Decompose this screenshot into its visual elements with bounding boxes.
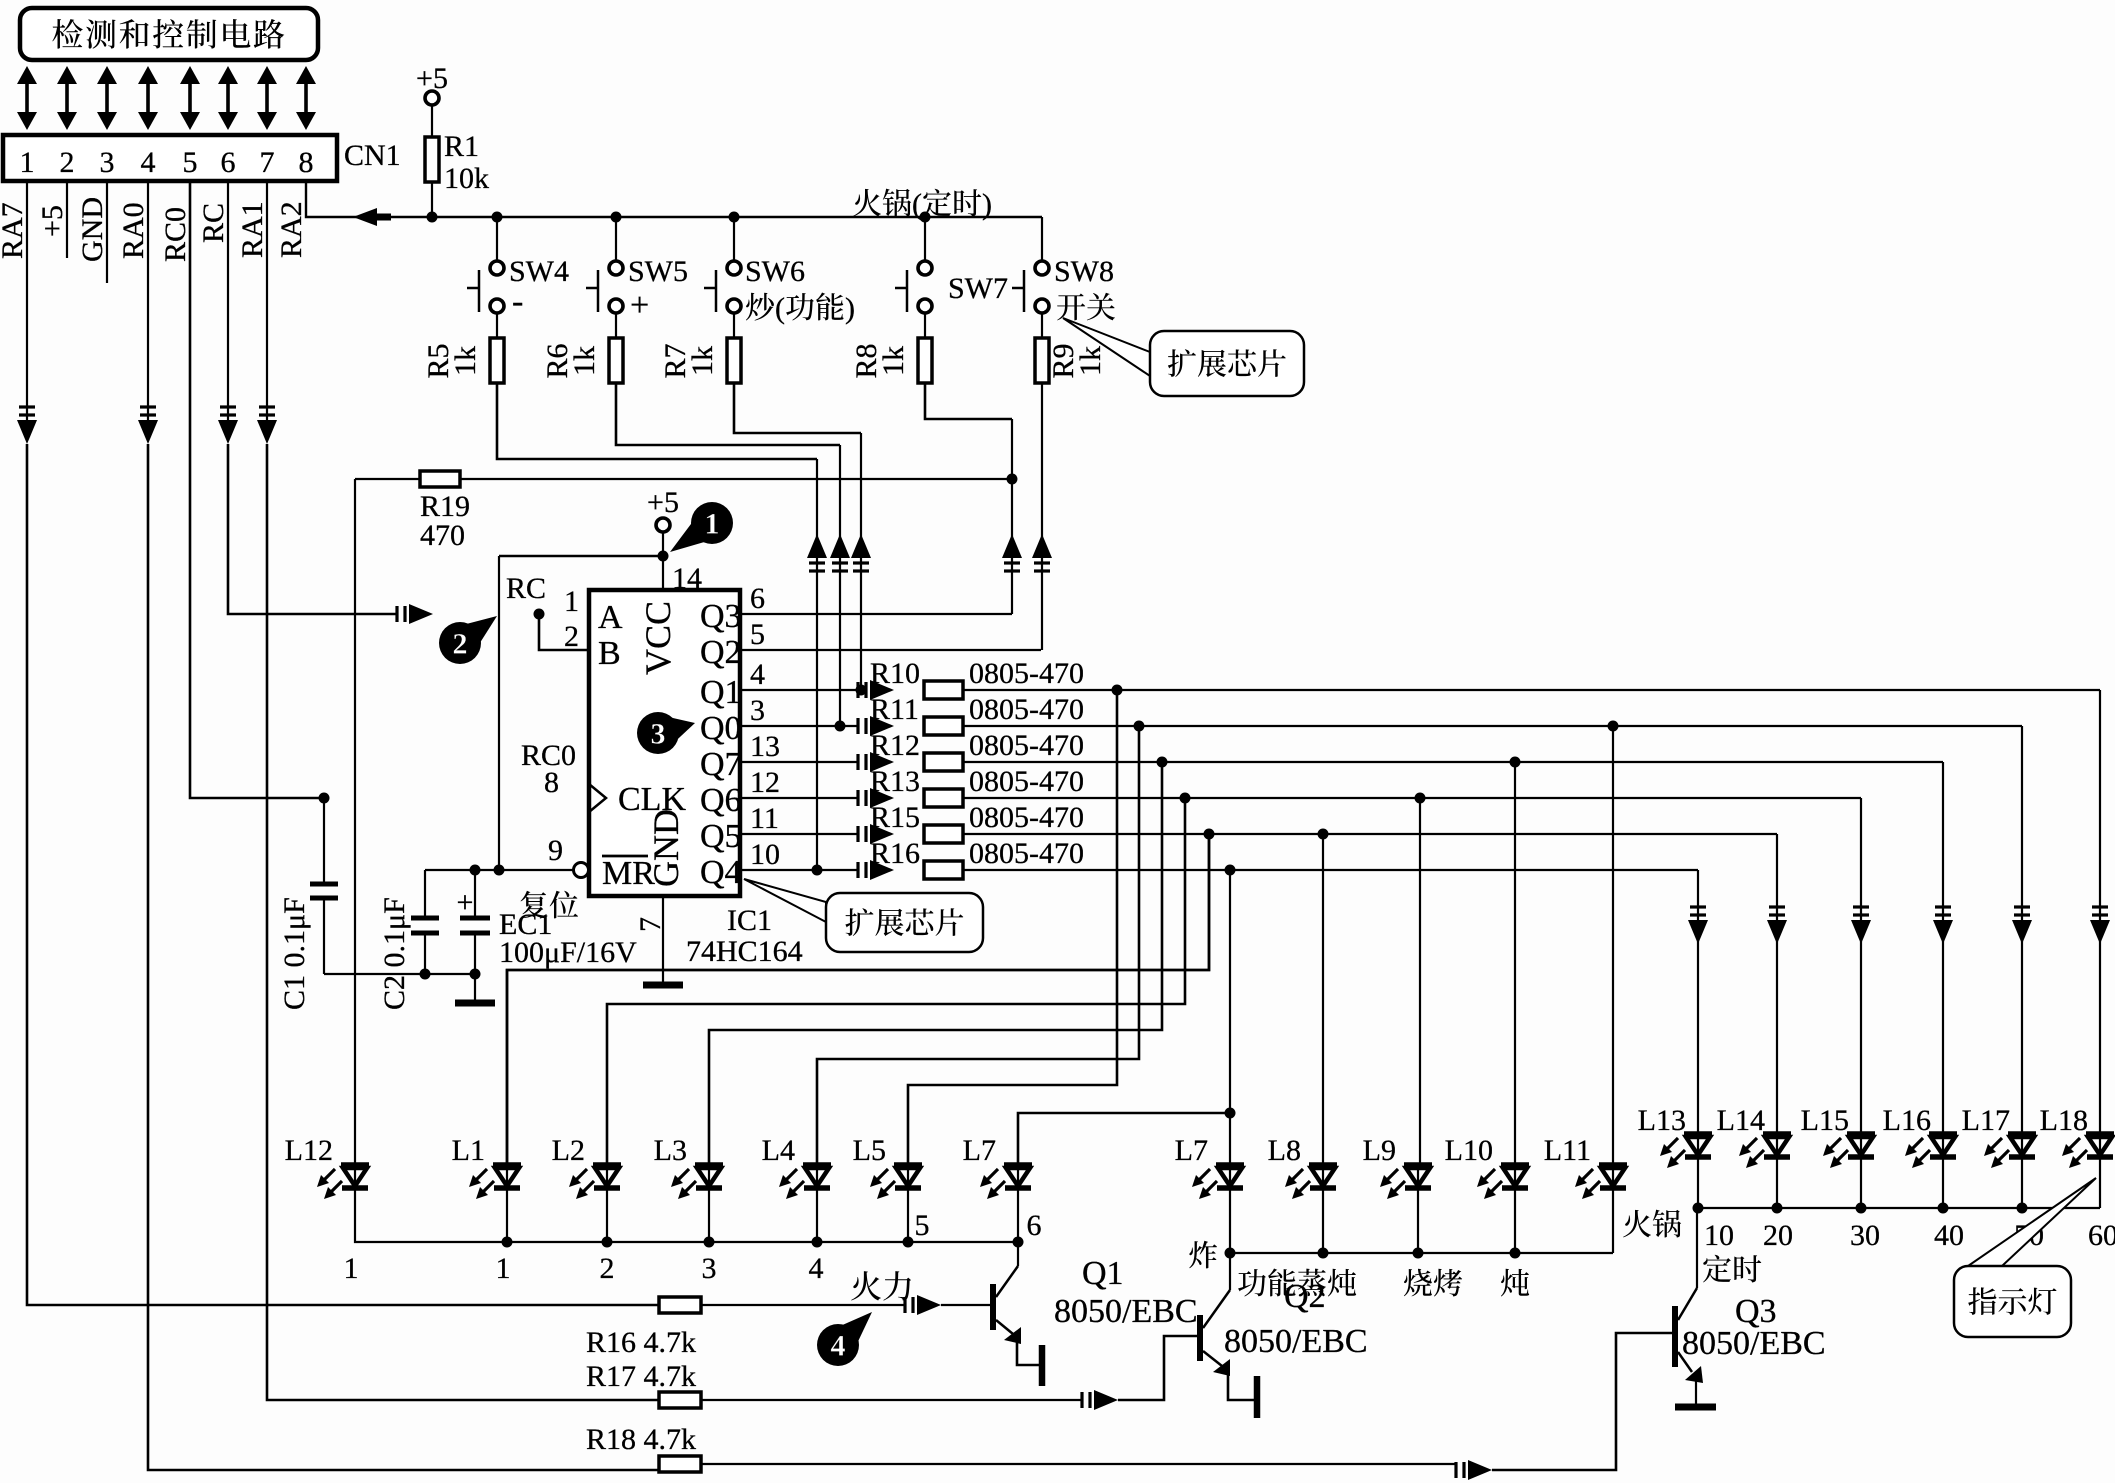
svg-text:CLK: CLK [618,781,686,818]
wire R15 output line [963,833,1777,835]
LED L18 [2086,1131,2114,1137]
svg-text:6: 6 [1027,1209,1042,1242]
svg-text:IC1: IC1 [727,904,772,937]
arrow into CN1 (left) [353,208,377,226]
junction R10 drop [1112,685,1123,696]
svg-text:Q0: Q0 [700,710,742,747]
junction bus3 x=1943 [1938,1203,1949,1214]
label 定时 [1703,1255,1731,1283]
junction EC1/rail [470,969,481,980]
resistor R1 10k [431,105,433,138]
svg-text:R15: R15 [870,801,920,834]
wire CN1 pin8 RA2 to key bus [306,181,1042,217]
junction R12 drop [1157,757,1168,768]
junction R15/L8 tap [1318,829,1329,840]
svg-text:40: 40 [1934,1219,1964,1252]
junction A-B tie [534,609,545,620]
svg-text:R11: R11 [870,693,919,726]
svg-text:(: ( [775,292,785,325]
arrow to Q1 base [903,1297,906,1313]
wire R7 to scan line [734,383,861,433]
wire LED cathode x=1698 (top row) [1697,1157,1699,1208]
resistor R15 0805-470 [924,825,963,843]
svg-text:3: 3 [750,694,765,727]
svg-text:0805-470: 0805-470 [969,657,1084,690]
junction R11/L11 tap [1608,721,1619,732]
label 开关 [1057,293,1085,320]
arrow up scan a [807,534,827,558]
junction bus/SW5 [611,212,622,223]
junction bus/SW7 [920,212,931,223]
junction bus2 x=1418 [1413,1248,1424,1259]
svg-text:1k: 1k [877,346,910,376]
wire LED cathode x=607 [606,1188,608,1242]
wire drop x=1162 to LED column x=709 [709,762,1162,1165]
label 复位 (reset) [521,891,548,919]
power terminal +5 (IC) [656,518,670,532]
svg-text:): ) [982,188,992,221]
svg-text:C1 0.1μF: C1 0.1μF [278,897,311,1010]
svg-text:): ) [845,292,855,325]
wire RA0 to R18 row [148,444,659,1470]
junction scan a / R16 line [812,865,823,876]
svg-text:8050/EBC: 8050/EBC [1054,1293,1198,1330]
arrow into R11 [856,718,859,734]
junction bus1 end / Q1 collector [1013,1237,1024,1248]
junction MR/+5 [494,865,505,876]
svg-text:4: 4 [809,1252,824,1285]
junction SW7 column / R19 line [1007,474,1018,485]
junction R16 drop [1225,865,1236,876]
junction bus3 x=1861 [1856,1203,1867,1214]
resistor R6 1k [609,338,623,383]
svg-text:2: 2 [453,628,468,661]
arrow into R16 [856,862,859,878]
LED L2 [593,1162,621,1168]
junction bus1 x=908 [903,1237,914,1248]
arrow up scan c [851,534,871,558]
switch SW4 [496,217,498,262]
svg-text:R17 4.7k: R17 4.7k [586,1360,696,1393]
wire IC output to R11 [740,725,858,727]
wire L7a cathode [1017,1188,1019,1242]
svg-text:Q2: Q2 [700,634,742,671]
wire CN1 pin4 RA0 stub [147,181,149,420]
LED L12 [341,1162,369,1168]
wire SW7 column to IC pin6 [1011,419,1013,614]
bidirectional arrow CN1 pin 3 [105,79,109,117]
svg-text:1k: 1k [1074,346,1107,376]
svg-text:RA0: RA0 [117,202,150,259]
wire LED cathode x=507 [506,1188,508,1242]
resistor R12 0805-470 [924,753,963,771]
LED L9 [1404,1162,1432,1168]
svg-text:74HC164: 74HC164 [686,935,803,968]
arrow into R13 [856,790,859,806]
svg-text:L2: L2 [552,1134,585,1167]
svg-text:0805-470: 0805-470 [969,729,1084,762]
resistor R8 1k [918,338,932,383]
svg-text:L18: L18 [2040,1104,2088,1137]
label 烧烤 [1404,1269,1432,1297]
bidirectional arrow CN1 pin 6 [226,79,230,117]
wire branch to L7a [1018,1113,1230,1165]
label 火锅 [1623,1210,1651,1238]
arrow into R15 [856,826,859,842]
bidirectional arrow CN1 pin 8 [304,79,308,117]
junction bus3 x=1698 [1693,1203,1704,1214]
bidirectional arrow CN1 pin 2 [65,79,69,117]
ground (Q2 emitter) [1254,1376,1261,1418]
junction R15 drop [1204,829,1215,840]
svg-text:1k: 1k [449,346,482,376]
junction bus3 x=1777 [1772,1203,1783,1214]
wire R9 down [1041,383,1043,650]
ground (EC1) [455,1000,495,1007]
bidirectional arrow CN1 pin 4 [146,79,150,117]
transistor Q2 8050/EBC [1197,1315,1203,1361]
svg-text:3: 3 [702,1252,717,1285]
wire R8 to Q3 column [925,383,1012,419]
svg-text:1: 1 [564,585,579,618]
arrow down x=1698 [1688,920,1708,944]
callout 扩展芯片 (IC) [744,879,826,922]
arrow into R10 [856,682,859,698]
bus 1 (heat-level LEDs common) [355,1188,1018,1242]
LED L7 [1216,1162,1244,1168]
callout 指示灯 [1968,1178,2096,1266]
switch SW6 [733,217,735,262]
svg-text:1k: 1k [686,346,719,376]
wire R6 to scan line [616,383,840,445]
wire drop x=1139 to LED column x=817 [817,726,1139,1165]
svg-text:-: - [512,283,523,320]
balloon 4 [817,1324,859,1366]
wire LED cathode x=2100 (top row) [2099,1157,2101,1208]
callout 扩展芯片 (keys) [1063,318,1150,376]
resistor R7 1k [727,338,741,383]
wire LED cathode x=908 [907,1188,909,1242]
svg-text:Q7: Q7 [700,746,742,783]
wire LED cathode x=1777 (top row) [1776,1157,1778,1208]
wire CN1 pin2 +5 stub [66,181,68,258]
LED L14 [1763,1131,1791,1137]
svg-text:L16: L16 [1883,1104,1931,1137]
wire A-B tie [539,614,589,650]
svg-text:3: 3 [100,146,115,179]
svg-text:+5: +5 [36,205,69,237]
arrow RA0 down [138,420,158,444]
wire MR rail [425,869,574,871]
wire LED cathode x=2022 (top row) [2021,1157,2023,1208]
arrow RA1 down [257,420,277,444]
label 火力 [851,1271,881,1300]
junction bus3 x=2022 [2017,1203,2028,1214]
LED L7 [1004,1162,1032,1168]
svg-text:L12: L12 [285,1134,333,1167]
LED L13 [1684,1131,1712,1137]
junction bus1 x=709 [704,1237,715,1248]
wire R10 output line [963,689,2100,691]
wire CN1 pin1 RA7 stub [26,181,28,420]
LED L17 [2008,1131,2036,1137]
wire corner x=2100 down to LED row [2099,690,2101,1134]
junction bus2 x=1515 [1510,1248,1521,1259]
svg-text:L8: L8 [1268,1134,1301,1167]
junction bus1 x=507 [502,1237,513,1248]
svg-text:Q1: Q1 [1082,1255,1124,1292]
arrow to Q3 base [1454,1462,1457,1478]
svg-text:3: 3 [651,718,666,751]
wire IC pin6 to SW7 column [740,613,1012,615]
wire L1 feed line [507,834,1209,1165]
bus 2 (function LEDs common) [1230,1188,1613,1253]
LED L3 [695,1162,723,1168]
resistor R13 0805-470 [924,789,963,807]
svg-text:4: 4 [141,146,156,179]
MR inverting bubble [574,863,589,878]
svg-text:4: 4 [750,658,765,691]
ground (Q3 emitter) [1675,1404,1716,1411]
svg-text:RA2: RA2 [275,201,308,258]
svg-text:12: 12 [750,766,780,799]
resistor R9 1k [1035,338,1049,383]
wire IC output to R12 [740,761,858,763]
svg-text:SW7: SW7 [948,272,1008,305]
svg-text:10: 10 [750,838,780,871]
capacitor EC1 100uF/16V (electrolytic) [474,870,476,918]
wire R11 output line [963,725,2022,727]
svg-text:+: + [630,287,649,324]
wire to Q1 base [941,1304,990,1306]
svg-text:Q6: Q6 [700,782,742,819]
wire CN1 pin6 RC stub [227,181,229,420]
wire LED cathode x=1943 (top row) [1942,1157,1944,1208]
label 炒(功能) [746,293,774,321]
junction R11 drop [1134,721,1145,732]
svg-text:RA7: RA7 [0,202,29,259]
svg-text:20: 20 [1763,1219,1793,1252]
power terminal +5 (top) [425,91,439,105]
svg-text:RA1: RA1 [236,201,269,258]
wire R12 output line [963,761,1943,763]
svg-text:RC: RC [506,572,546,605]
svg-text:8050/EBC: 8050/EBC [1224,1323,1368,1360]
arrow into R12 [856,754,859,770]
ground (IC pin 7) [643,982,683,989]
junction R1/bus [427,212,438,223]
junction bus/SW6 [729,212,740,223]
wire LED cathode x=1515 [1514,1188,1516,1253]
arrow RA7 down [17,420,37,444]
svg-text:VCC: VCC [638,601,678,675]
junction bus2 x=1323 [1318,1248,1329,1259]
svg-text:1: 1 [20,146,35,179]
resistor R16 4.7k (Q1 base) [659,1297,701,1313]
wire drop x=1185 to LED column x=607 [607,798,1185,1165]
resistor R10 0805-470 [924,681,963,699]
arrow down x=1943 [1933,920,1953,944]
junction R12/L10 tap [1510,757,1521,768]
wire scan column c (SW6 to R10 input) [860,433,862,690]
capacitor ground rail [324,973,475,975]
clock wedge [589,784,606,812]
svg-text:R16: R16 [870,837,920,870]
wire IC pin5 to SW8 column [740,649,1041,651]
connector CN1 [3,135,337,181]
svg-text:L17: L17 [1962,1104,2010,1137]
wire +5 to MR rail [499,555,663,558]
svg-text:100μF/16V: 100μF/16V [499,936,637,969]
svg-text:L10: L10 [1445,1134,1493,1167]
svg-text:0805-470: 0805-470 [969,765,1084,798]
resistor R16 0805-470 [924,861,963,879]
balloon 3 [637,712,679,754]
wire corner x=1861 down to LED row [1860,798,1862,1134]
svg-text:R1: R1 [444,130,479,163]
svg-text:2: 2 [60,146,75,179]
svg-text:0805-470: 0805-470 [969,801,1084,834]
switch SW7 [924,217,926,262]
wire tap to L11 [1612,726,1614,1165]
svg-text:CN1: CN1 [344,139,401,172]
wire corner x=1777 down to LED row [1776,834,1778,1134]
svg-text:L5: L5 [853,1134,886,1167]
svg-text:13: 13 [750,730,780,763]
svg-text:8: 8 [544,766,559,799]
svg-text:GND: GND [76,197,109,262]
arrow RC down [218,420,238,444]
arrow down x=1861 [1851,920,1871,944]
wire corner x=1698 down to LED row [1697,870,1699,1134]
transistor Q3 8050/EBC [1672,1306,1678,1367]
wire RA7 to R16 row [27,444,659,1305]
svg-text:SW8: SW8 [1054,255,1114,288]
wire IC output to R15 [740,833,858,835]
svg-text:8050/EBC: 8050/EBC [1682,1325,1826,1362]
block: detection & control circuit box (检测和控制电路) [20,8,318,60]
svg-text:1k: 1k [568,346,601,376]
svg-text:L15: L15 [1801,1104,1849,1137]
resistor R17 4.7k (Q2 base) [659,1392,701,1408]
label 功能 [1238,1269,1266,1297]
svg-text:L14: L14 [1717,1104,1765,1137]
arrow up SW8 column [1032,534,1052,558]
svg-text:7: 7 [260,146,275,179]
wire drop x=1209 to LED column x=507 [507,834,1209,1165]
svg-text:SW5: SW5 [628,255,688,288]
wire CN1 pin7 RA1 stub [266,181,268,420]
LED L15 [1847,1131,1875,1137]
svg-text:60: 60 [2088,1219,2115,1252]
wire IC output to R16 [740,869,858,871]
svg-text:RC: RC [197,203,230,243]
svg-text:8: 8 [299,146,314,179]
wire LED cathode x=709 [708,1188,710,1242]
resistor R19 470 [355,478,1012,480]
label 炸 [1189,1241,1217,1269]
wire LED cathode x=1418 [1417,1188,1419,1253]
svg-text:1: 1 [496,1252,511,1285]
arrow up SW7 column [1002,534,1022,558]
svg-text:5: 5 [750,618,765,651]
svg-text:+: + [457,886,474,919]
svg-text:470: 470 [420,519,465,552]
svg-text:A: A [598,599,623,636]
junction bus1 x=607 [602,1237,613,1248]
svg-text:10k: 10k [444,162,489,195]
LED L11 [1599,1162,1627,1168]
junction +5 node [658,551,669,562]
svg-text:Q5: Q5 [700,818,742,855]
wire tap to L10 [1514,762,1516,1165]
label 炖 [1501,1269,1529,1297]
wire R16 drop to L7 pair [1229,870,1231,1165]
svg-text:30: 30 [1850,1219,1880,1252]
wire to Q3 base [1492,1333,1672,1470]
arrow on RC line [395,606,398,622]
junction bus1 x=817 [812,1237,823,1248]
junction R13/L9 tap [1415,793,1426,804]
svg-text:R18 4.7k: R18 4.7k [586,1423,696,1456]
svg-text:4: 4 [831,1330,846,1363]
svg-text:7: 7 [634,917,667,932]
wire LED cathode x=1323 [1322,1188,1324,1253]
wire to Q2 base [1118,1336,1197,1400]
wire +5 to VCC pin 14 [662,532,664,591]
balloon 2 [439,622,481,664]
svg-text:L13: L13 [1638,1104,1686,1137]
wire LED cathode x=817 [816,1188,818,1242]
svg-text:2: 2 [564,620,579,653]
bidirectional arrow CN1 pin 1 [25,79,29,117]
wire IC pin7 GND [662,896,664,986]
svg-text:R16 4.7k: R16 4.7k [586,1326,696,1359]
LED L4 [803,1162,831,1168]
wire corner x=1943 down to LED row [1942,762,1944,1134]
svg-text:5: 5 [915,1209,930,1242]
svg-text:L1: L1 [452,1134,485,1167]
svg-text:11: 11 [750,802,779,835]
svg-text:1: 1 [705,508,720,541]
wire CN1 pin3 GND stub [106,181,108,283]
wire tap to L8 [1322,834,1324,1165]
bidirectional arrow CN1 pin 7 [265,79,269,117]
wire scan column a (SW4 to R16 input) [816,459,818,870]
switch SW5 [615,217,617,262]
svg-text:MR: MR [602,855,655,892]
svg-text:R13: R13 [870,765,920,798]
junction bus2 / Q2 collector (炸) [1225,1248,1236,1259]
svg-text:R10: R10 [870,657,920,690]
svg-text:1: 1 [344,1252,359,1285]
junction scan b / R11 line [835,721,846,732]
resistor R5 1k [490,338,504,383]
LED L1 [493,1162,521,1168]
capacitor C1 0.1uF [323,798,325,884]
wire drop x=1117 to LED column x=908 [908,690,1117,1165]
arrow down x=2100 [2090,920,2110,944]
ground (Q1 emitter) [1039,1345,1046,1386]
svg-text:6: 6 [750,582,765,615]
svg-text:R12: R12 [870,729,920,762]
svg-text:Q3: Q3 [700,598,742,635]
svg-text:+5: +5 [416,62,448,95]
svg-text:L11: L11 [1544,1134,1591,1167]
junction scan c / R10 line [856,685,867,696]
balloon 1 [691,502,733,544]
wire LED cathode x=1861 (top row) [1860,1157,1862,1208]
